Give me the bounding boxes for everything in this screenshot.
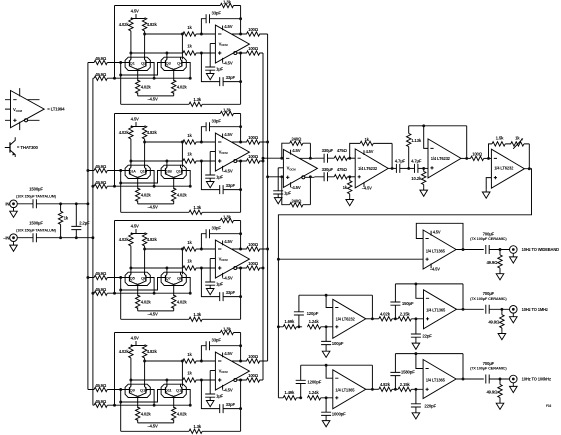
ground row3 load bbox=[496, 401, 504, 409]
svg-text:= LT1994: = LT1994 bbox=[47, 107, 65, 112]
wire row3 stage2 feedback bbox=[395, 354, 463, 379]
fully-differential op-amp stage1 (LT1994) bbox=[210, 24, 249, 66]
capacitor 700uF row3 bbox=[486, 375, 489, 384]
svg-text:475Ω: 475Ω bbox=[337, 167, 348, 172]
svg-text:49.9Ω: 49.9Ω bbox=[488, 320, 500, 325]
wire to LT6232 #1 non-inverting bbox=[347, 176, 355, 178]
resistor 4.02k row2 bbox=[379, 317, 392, 321]
resistor 475 lower bbox=[334, 175, 347, 179]
svg-text:1k: 1k bbox=[515, 135, 520, 140]
svg-text:VOCM: VOCM bbox=[287, 166, 297, 172]
resistor 4.82k row3 bbox=[379, 387, 392, 391]
svg-text:1/4 LT6232: 1/4 LT6232 bbox=[494, 165, 514, 170]
wire to #3 bbox=[484, 157, 492, 159]
svg-text:22pF: 22pF bbox=[422, 334, 432, 339]
svg-text:4.5V: 4.5V bbox=[433, 230, 441, 235]
wire row2 stage1 output bbox=[366, 318, 379, 320]
svg-text:Q1C: Q1C bbox=[176, 169, 184, 173]
power labels LT6232 #1 bbox=[363, 150, 365, 187]
resistor 49.9 row3 load bbox=[499, 379, 501, 401]
svg-text:4.5V: 4.5V bbox=[292, 148, 300, 153]
svg-text:220pF: 220pF bbox=[424, 403, 436, 408]
op-amp U2b 1/4 LT6232 bbox=[428, 139, 461, 178]
svg-text:(7X 100µF CERAMIC): (7X 100µF CERAMIC) bbox=[470, 236, 507, 241]
svg-text:VOCM: VOCM bbox=[13, 107, 23, 113]
op-amp U4a 1/4 LT6232 row2 bbox=[333, 299, 366, 338]
svg-text:1k: 1k bbox=[364, 137, 369, 142]
svg-text:4.5V: 4.5V bbox=[224, 132, 232, 137]
svg-text:4.02k: 4.02k bbox=[380, 311, 391, 316]
resistor 475 upper bbox=[334, 156, 347, 160]
svg-text:1k: 1k bbox=[64, 216, 69, 221]
capacitor 150pF row2 bbox=[394, 284, 396, 319]
svg-text:(10X 150µF TANTALUM): (10X 150µF TANTALUM) bbox=[16, 228, 57, 232]
svg-text:Q1D: Q1D bbox=[140, 169, 148, 173]
wire row3 stage1 feedback bbox=[301, 365, 373, 389]
svg-text:(7X 100µF CERAMIC): (7X 100µF CERAMIC) bbox=[470, 366, 507, 371]
svg-text:4.5V: 4.5V bbox=[224, 351, 232, 356]
svg-text:240Ω: 240Ω bbox=[291, 136, 302, 141]
capacitor 700uF wideband bbox=[486, 245, 489, 254]
input stage 1 bbox=[88, 0, 268, 107]
ground under IN jack bbox=[13, 208, 15, 209]
resistor 100 interstage bbox=[471, 156, 484, 160]
capacitor 2.2uF input bbox=[75, 204, 77, 238]
svg-text:1500µF: 1500µF bbox=[29, 221, 43, 226]
svg-text:–4.5V: –4.5V bbox=[362, 185, 372, 190]
op-amp U3d 1/4 LT1365 row3 bbox=[423, 360, 456, 399]
wire output #3 / global feedback bbox=[278, 169, 531, 398]
svg-text:–4.5V: –4.5V bbox=[222, 276, 233, 281]
capacitor 330uF lower bbox=[314, 176, 334, 178]
fully-differential op-amp stage3 (LT1994) bbox=[210, 239, 249, 281]
input stage 3 bbox=[88, 214, 268, 321]
svg-text:100pF: 100pF bbox=[332, 341, 344, 346]
svg-text:Q10: Q10 bbox=[140, 387, 148, 392]
svg-text:4.7µF: 4.7µF bbox=[411, 158, 422, 163]
capacitor 1uF summing vocm bbox=[277, 168, 279, 191]
resistor 10.2k to ground bbox=[423, 168, 425, 188]
svg-text:10Hz TO WIDEBAND: 10Hz TO WIDEBAND bbox=[522, 247, 560, 252]
svg-text:IN: IN bbox=[5, 202, 9, 207]
fully-differential op-amp stage4 (LT1994) bbox=[210, 351, 249, 393]
resistor 1.24k row3 bbox=[308, 396, 321, 400]
svg-text:1.49k: 1.49k bbox=[284, 390, 295, 395]
wire row3 stage1 output bbox=[366, 388, 379, 390]
wire row3 output bbox=[456, 378, 484, 380]
node row3 jack bbox=[510, 375, 518, 383]
capacitor 1000pF row3 bbox=[325, 398, 327, 419]
svg-text:–4.5V: –4.5V bbox=[222, 388, 233, 393]
input stage 2 bbox=[88, 107, 268, 214]
svg-text:VOCM: VOCM bbox=[219, 256, 229, 262]
resistor 1.49k row3 bbox=[278, 397, 302, 399]
svg-text:VOCM: VOCM bbox=[219, 149, 229, 155]
capacitor 330uF upper bbox=[314, 157, 334, 159]
svg-text:330µF: 330µF bbox=[322, 148, 334, 153]
power labels wideband bbox=[430, 231, 432, 269]
svg-text:1.24k: 1.24k bbox=[309, 390, 320, 395]
capacitor 22pF row2 bbox=[415, 319, 417, 341]
resistor 240 lower feedback bbox=[282, 177, 311, 205]
ground row3 jack bbox=[512, 383, 514, 384]
resistor 1k to ground #1 bbox=[349, 177, 351, 198]
wire wideband output bbox=[456, 249, 484, 251]
fully-differential op-amp stage2 (LT1994) bbox=[210, 132, 249, 174]
svg-text:Q1B: Q1B bbox=[165, 169, 173, 173]
svg-text:1.13k: 1.13k bbox=[411, 138, 422, 143]
capacitor 120pF row2 bbox=[298, 295, 300, 327]
ground row2 load bbox=[498, 331, 506, 339]
wire to LT6232 #1 inverting bbox=[347, 157, 355, 159]
svg-text:2.15k: 2.15k bbox=[400, 311, 411, 316]
ground 22pF bbox=[412, 341, 420, 349]
ground wideband load bbox=[496, 272, 504, 280]
op-amp U3c 1/4 LT1365 row3 bbox=[333, 370, 366, 409]
node row2 jack bbox=[510, 306, 518, 314]
input stage 4 bbox=[88, 326, 268, 433]
svg-text:–IN: –IN bbox=[3, 235, 9, 240]
svg-text:–4.5V: –4.5V bbox=[222, 169, 233, 174]
svg-text:120pF: 120pF bbox=[307, 311, 319, 316]
resistor 1k trim feedback bbox=[511, 142, 524, 146]
svg-text:1/4 LT1365: 1/4 LT1365 bbox=[426, 248, 446, 253]
wire wideband feedback bbox=[416, 223, 463, 249]
svg-text:1.69k: 1.69k bbox=[284, 319, 295, 324]
svg-text:1/4 LT1365: 1/4 LT1365 bbox=[426, 308, 446, 313]
ground 10.2k bbox=[420, 188, 428, 196]
svg-text:4.7µF: 4.7µF bbox=[395, 158, 406, 163]
wire feedback top #2 bbox=[409, 126, 467, 159]
svg-text:1/4 LT6232: 1/4 LT6232 bbox=[336, 317, 356, 322]
wire #3 non-inverting to ground bbox=[486, 178, 491, 190]
svg-text:VOCM: VOCM bbox=[219, 41, 229, 47]
capacitor 4.7uF second bbox=[415, 164, 418, 173]
svg-text:VOCM: VOCM bbox=[219, 368, 229, 374]
wire +input bus bbox=[87, 63, 89, 390]
node wideband jack bbox=[510, 246, 518, 254]
wire summing inputs bbox=[263, 158, 283, 177]
ground row2 jack bbox=[512, 313, 514, 314]
svg-text:1/4 LT1365: 1/4 LT1365 bbox=[426, 377, 446, 382]
svg-text:1580pF: 1580pF bbox=[401, 369, 415, 374]
svg-text:475Ω: 475Ω bbox=[337, 148, 348, 153]
wire lower output bus bbox=[262, 53, 264, 380]
wire upper output bus bbox=[267, 34, 269, 361]
op-amp U3 1/4 LT1365 wideband bbox=[423, 230, 456, 269]
resistor 49.9 wideband load bbox=[499, 250, 501, 272]
fully-differential op-amp summing (LT1994) bbox=[278, 148, 317, 190]
svg-text:100Ω: 100Ω bbox=[472, 152, 483, 157]
svg-text:= THAT300: = THAT300 bbox=[17, 145, 39, 150]
svg-text:–4.5V: –4.5V bbox=[290, 185, 301, 190]
transistor legend symbol = THAT300 bbox=[9, 142, 11, 152]
wire #2 inverting lead bbox=[424, 126, 428, 149]
svg-text:4.5V: 4.5V bbox=[366, 149, 374, 154]
wire row2 stage2 feedback bbox=[395, 284, 463, 309]
resistor 2.15k row3 bbox=[392, 388, 423, 390]
wire row2 stage1 feedback bbox=[299, 295, 373, 319]
svg-text:150pF: 150pF bbox=[402, 301, 414, 306]
svg-text:–4.5V: –4.5V bbox=[430, 267, 440, 272]
resistor 1.5k feedback bbox=[489, 144, 512, 159]
svg-text:1/4 LT6232: 1/4 LT6232 bbox=[431, 156, 451, 161]
capacitor 1580pF row3 bbox=[394, 354, 396, 390]
svg-text:Q1A: Q1A bbox=[129, 169, 137, 173]
svg-text:2.15k: 2.15k bbox=[400, 382, 411, 387]
svg-text:49.9Ω: 49.9Ω bbox=[486, 260, 498, 265]
ground under -IN jack bbox=[13, 242, 15, 243]
ground 100pF bbox=[322, 349, 330, 357]
wire row2 output bbox=[457, 308, 484, 310]
svg-text:F16: F16 bbox=[546, 404, 551, 408]
svg-text:1000pF: 1000pF bbox=[332, 412, 346, 417]
capacitor 1200pF row3 bbox=[300, 365, 302, 398]
ground #1 bbox=[346, 197, 354, 205]
op-amp U2a 1/4 LT6232 bbox=[355, 149, 388, 188]
capacitor 100pF row2 bbox=[325, 327, 327, 349]
svg-text:1.5k: 1.5k bbox=[496, 135, 504, 140]
svg-text:1k: 1k bbox=[343, 185, 348, 190]
svg-text:1500µF: 1500µF bbox=[29, 187, 43, 192]
svg-text:(10X 150µF TANTALUM): (10X 150µF TANTALUM) bbox=[16, 194, 57, 198]
capacitor 220pF row3 bbox=[415, 389, 417, 410]
resistor 49.9 row2 load bbox=[501, 309, 503, 331]
svg-text:4.82k: 4.82k bbox=[380, 382, 391, 387]
wire output #2 bbox=[461, 157, 471, 159]
svg-text:(7X 100µF CERAMIC): (7X 100µF CERAMIC) bbox=[470, 296, 507, 301]
resistor 2.15k row2 bbox=[392, 318, 424, 320]
svg-text:10.2k: 10.2k bbox=[411, 176, 422, 181]
wire row2 stage1 inverting bbox=[326, 295, 333, 307]
svg-text:10Hz TO 1MHz: 10Hz TO 1MHz bbox=[522, 307, 548, 312]
op-amp U2c 1/4 LT6232 bbox=[491, 149, 524, 188]
svg-text:49.9Ω: 49.9Ω bbox=[486, 389, 498, 394]
resistor 1.24k row2 bbox=[308, 325, 321, 329]
op-amp legend symbol = LT1994 bbox=[11, 91, 45, 128]
wire output #1 bbox=[388, 167, 396, 169]
svg-text:–4.5V: –4.5V bbox=[222, 61, 233, 66]
wire row3 stage1 inverting bbox=[326, 365, 333, 378]
capacitor 700uF row2 bbox=[486, 305, 489, 314]
wire row2 stage2 inverting bbox=[416, 284, 424, 298]
capacitor 4.7uF first bbox=[396, 164, 399, 173]
svg-text:1/4 LT6232: 1/4 LT6232 bbox=[358, 166, 378, 171]
resistor 1.69k row2 bbox=[278, 326, 302, 328]
resistor 240 upper feedback bbox=[282, 143, 311, 158]
svg-text:10Hz TO 100kHz: 10Hz TO 100kHz bbox=[522, 377, 551, 382]
resistor 1k feedback #1 bbox=[350, 143, 392, 168]
svg-text:Q12: Q12 bbox=[176, 387, 184, 392]
wire row3 stage2 inverting bbox=[416, 354, 423, 369]
ground 220pF bbox=[412, 411, 420, 419]
svg-text:330µF: 330µF bbox=[322, 167, 334, 172]
wire -input bus bbox=[92, 78, 94, 405]
ground summing vocm bbox=[277, 194, 279, 195]
resistor 1.13k bootstrap bbox=[408, 126, 410, 169]
svg-text:1.24k: 1.24k bbox=[309, 319, 320, 324]
svg-text:4.5V: 4.5V bbox=[224, 239, 232, 244]
svg-text:4.5V: 4.5V bbox=[224, 24, 232, 29]
resistor 1k input termination bbox=[60, 204, 62, 238]
wire wideband non-inverting feed bbox=[278, 258, 423, 260]
op-amp U3b 1/4 LT1365 row2 bbox=[424, 290, 457, 329]
svg-text:2.2µF: 2.2µF bbox=[79, 220, 90, 225]
ground 1000pF bbox=[322, 418, 330, 426]
ground wideband jack bbox=[512, 253, 514, 254]
svg-text:1/4 LT1365: 1/4 LT1365 bbox=[335, 388, 355, 393]
svg-text:Q11: Q11 bbox=[165, 387, 173, 392]
svg-text:1200pF: 1200pF bbox=[307, 380, 321, 385]
svg-text:1µF: 1µF bbox=[284, 190, 292, 195]
svg-text:240Ω: 240Ω bbox=[291, 198, 302, 203]
